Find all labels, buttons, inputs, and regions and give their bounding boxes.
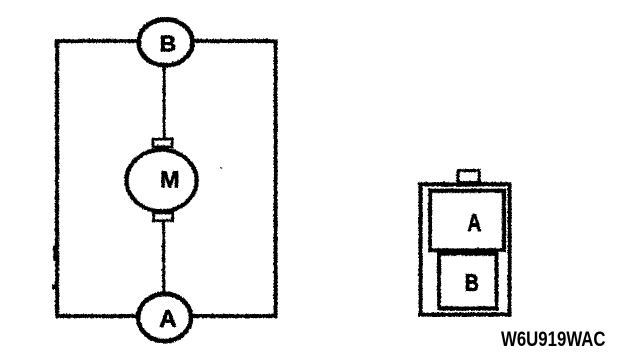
svg-text:B: B <box>159 31 176 56</box>
svg-text:B: B <box>465 269 479 296</box>
svg-text:A: A <box>159 306 176 333</box>
svg-text:A: A <box>467 210 481 237</box>
svg-text:M: M <box>160 166 180 192</box>
svg-text:W6U919WAC: W6U919WAC <box>501 328 606 351</box>
